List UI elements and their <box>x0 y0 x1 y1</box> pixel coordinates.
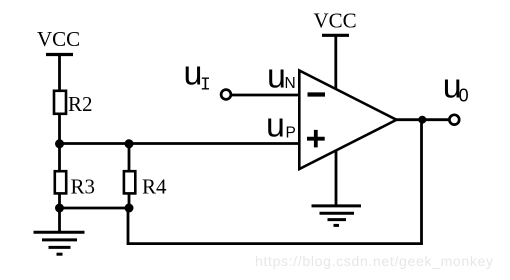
svg-text:0: 0 <box>459 86 469 106</box>
svg-text:u: u <box>266 107 285 145</box>
svg-text:I: I <box>200 75 211 95</box>
svg-text:N: N <box>285 75 296 92</box>
svg-text:R2: R2 <box>68 92 93 116</box>
svg-text:VCC: VCC <box>314 9 357 33</box>
svg-text:R4: R4 <box>142 175 167 199</box>
svg-text:u: u <box>267 58 286 96</box>
svg-text:VCC: VCC <box>37 27 80 51</box>
svg-text:https://blog.csdn.net/geek_mon: https://blog.csdn.net/geek_monkey <box>255 253 493 269</box>
svg-text:R3: R3 <box>71 175 96 199</box>
svg-text:P: P <box>286 125 296 142</box>
